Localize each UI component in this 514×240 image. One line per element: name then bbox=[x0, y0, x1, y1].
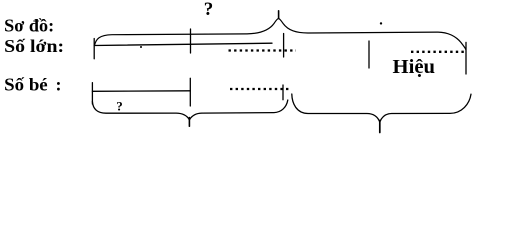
svg-text:?: ? bbox=[116, 98, 123, 113]
tick left end of So be bar bbox=[91, 83, 93, 104]
svg-text:Số lớn:: Số lớn: bbox=[4, 36, 64, 56]
under-brace below So be span, right half bbox=[190, 100, 288, 120]
tick right end of So lon row bbox=[465, 42, 467, 74]
large under-brace tip stem bbox=[379, 121, 381, 133]
dotted continuation of So be bar bbox=[230, 88, 291, 90]
tick divider at end of first dotted run bbox=[283, 34, 285, 58]
So lon bar line bbox=[94, 43, 272, 45]
top brace tip stem bbox=[278, 11, 280, 19]
large under-brace right half bbox=[380, 94, 471, 122]
tick left end of So lon bar bbox=[93, 39, 95, 59]
under-brace below So be span, left half bbox=[92, 102, 189, 120]
tick divider on So lon bar bbox=[190, 29, 192, 53]
under-brace tip stem (left brace) bbox=[188, 118, 190, 127]
svg-text::: : bbox=[56, 75, 62, 95]
tick at end of So be dotted run bbox=[282, 85, 284, 100]
So be bar line bbox=[92, 90, 190, 93]
large under-brace below right span, left half bbox=[292, 94, 380, 122]
dotted Hieu segment bbox=[411, 51, 466, 53]
tick divider before Hieu segment bbox=[368, 41, 370, 68]
svg-text:Sơ đồ:: Sơ đồ: bbox=[4, 16, 54, 36]
stray dot above right segment bbox=[380, 22, 382, 24]
dotted continuation of So lon bar bbox=[229, 49, 297, 51]
top brace right half bbox=[279, 18, 466, 49]
tick right end of So be bar bbox=[189, 78, 191, 106]
svg-text:Số bé: Số bé bbox=[4, 75, 48, 95]
svg-text:?: ? bbox=[204, 0, 214, 20]
stray dot on So lon bar bbox=[140, 46, 142, 48]
top brace over So lon bar, left half bbox=[95, 18, 279, 45]
svg-text:Hiệu: Hiệu bbox=[393, 56, 436, 78]
